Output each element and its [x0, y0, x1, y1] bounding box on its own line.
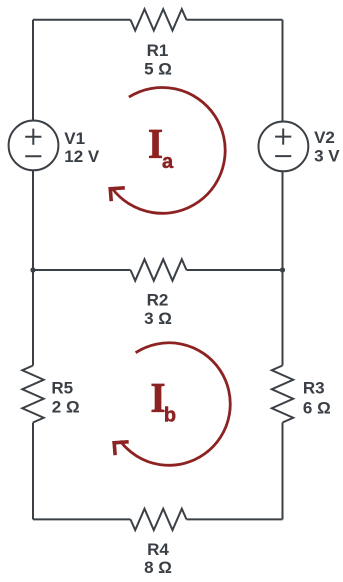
svg-text:R5: R5	[51, 378, 73, 397]
svg-text:R4: R4	[147, 540, 169, 559]
node left middle junction	[30, 267, 35, 272]
resistor R5	[22, 366, 43, 423]
resistor R2	[131, 259, 187, 280]
wire left rail lower above R5	[32, 270, 34, 366]
svg-text:R2: R2	[147, 290, 169, 309]
mesh current loop Ib arc	[120, 343, 230, 466]
wire right rail lower above R3	[282, 270, 284, 366]
wire left rail upper	[32, 20, 34, 270]
wire right rail lower below R3	[282, 423, 284, 520]
wire top rail left segment	[33, 19, 131, 21]
resistor R4	[131, 509, 187, 530]
svg-text:R3: R3	[303, 379, 325, 398]
label Ia	[148, 120, 174, 173]
label R2	[144, 290, 172, 328]
wire left rail lower below R5	[32, 423, 34, 520]
svg-text:2 Ω: 2 Ω	[52, 398, 80, 417]
svg-text:8 Ω: 8 Ω	[144, 558, 172, 577]
label Ib	[150, 374, 176, 426]
wire middle rail right segment	[187, 269, 283, 271]
wire top rail right segment	[187, 19, 283, 21]
label R5	[51, 378, 79, 416]
node right middle junction	[280, 267, 285, 272]
svg-text:6 Ω: 6 Ω	[303, 398, 331, 417]
label R3	[303, 379, 331, 418]
label R4	[144, 540, 172, 577]
resistor R3	[272, 366, 293, 423]
voltage source V2	[259, 121, 309, 171]
svg-text:I: I	[148, 120, 163, 167]
wire right rail upper	[282, 20, 284, 270]
label V2	[314, 128, 340, 166]
svg-text:R1: R1	[147, 41, 169, 60]
mesh current loop Ia arc	[112, 88, 225, 214]
mesh current loop Ia arrowhead	[110, 188, 123, 200]
svg-text:12 V: 12 V	[64, 147, 100, 166]
voltage source V1	[9, 120, 59, 170]
label R1	[144, 41, 172, 78]
svg-text:V2: V2	[314, 128, 335, 147]
resistor R1	[131, 9, 187, 30]
svg-text:V1: V1	[64, 129, 85, 148]
svg-text:3 Ω: 3 Ω	[144, 309, 172, 328]
svg-text:3 V: 3 V	[314, 147, 340, 166]
label V1	[64, 129, 100, 166]
svg-text:5 Ω: 5 Ω	[144, 59, 172, 78]
wire bottom rail right segment	[187, 518, 283, 520]
wire middle rail left segment	[33, 269, 131, 271]
wire bottom rail left segment	[33, 518, 131, 520]
svg-text:a: a	[162, 151, 174, 173]
mesh current loop Ib arrowhead	[114, 442, 127, 454]
svg-text:b: b	[164, 405, 176, 427]
